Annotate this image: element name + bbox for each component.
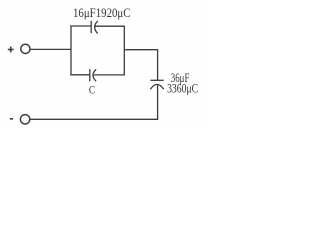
wire [157, 84, 159, 119]
terminal + [21, 44, 30, 53]
wire [95, 25, 125, 27]
wire [93, 74, 125, 76]
wire [70, 25, 91, 27]
wire [124, 50, 157, 80]
capacitor C1 [91, 21, 98, 34]
minus sign [10, 118, 13, 120]
wire [30, 118, 158, 120]
wire [30, 48, 71, 50]
wire [123, 26, 125, 76]
wire [70, 74, 89, 76]
svg-text:3360μC: 3360μC [167, 81, 198, 96]
wire [70, 25, 72, 75]
svg-text:16μF1920μC: 16μF1920μC [73, 5, 131, 20]
capacitor C [90, 69, 96, 81]
plus sign [8, 47, 14, 53]
svg-text:C: C [89, 83, 95, 97]
capacitor C2 [150, 80, 163, 89]
terminal - [20, 115, 29, 124]
